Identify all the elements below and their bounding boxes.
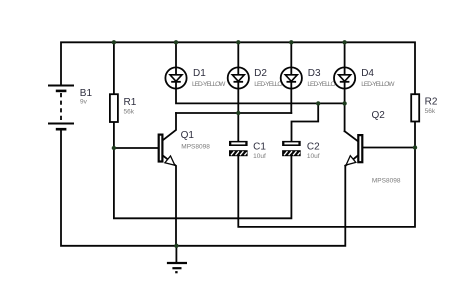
svg-text:Q2: Q2	[372, 110, 386, 121]
svg-text:LED-YELLOW: LED-YELLOW	[192, 81, 226, 88]
svg-text:D1: D1	[193, 68, 206, 79]
svg-text:9v: 9v	[80, 99, 88, 106]
svg-text:MPS8098: MPS8098	[372, 178, 401, 185]
svg-text:Q1: Q1	[181, 130, 195, 141]
svg-text:D2: D2	[254, 68, 267, 79]
svg-text:10uf: 10uf	[253, 153, 266, 160]
svg-text:R2: R2	[425, 97, 438, 108]
svg-text:D4: D4	[361, 68, 374, 79]
svg-text:10uf: 10uf	[307, 153, 320, 160]
svg-text:D3: D3	[308, 68, 321, 79]
svg-text:R1: R1	[124, 97, 137, 108]
svg-text:B1: B1	[80, 88, 93, 99]
svg-text:MPS8098: MPS8098	[181, 143, 210, 150]
svg-text:56k: 56k	[425, 108, 436, 115]
svg-text:LED-YELLOW: LED-YELLOW	[361, 81, 395, 88]
svg-text:56k: 56k	[124, 108, 135, 115]
svg-text:C1: C1	[253, 141, 266, 152]
svg-text:C2: C2	[307, 141, 320, 152]
